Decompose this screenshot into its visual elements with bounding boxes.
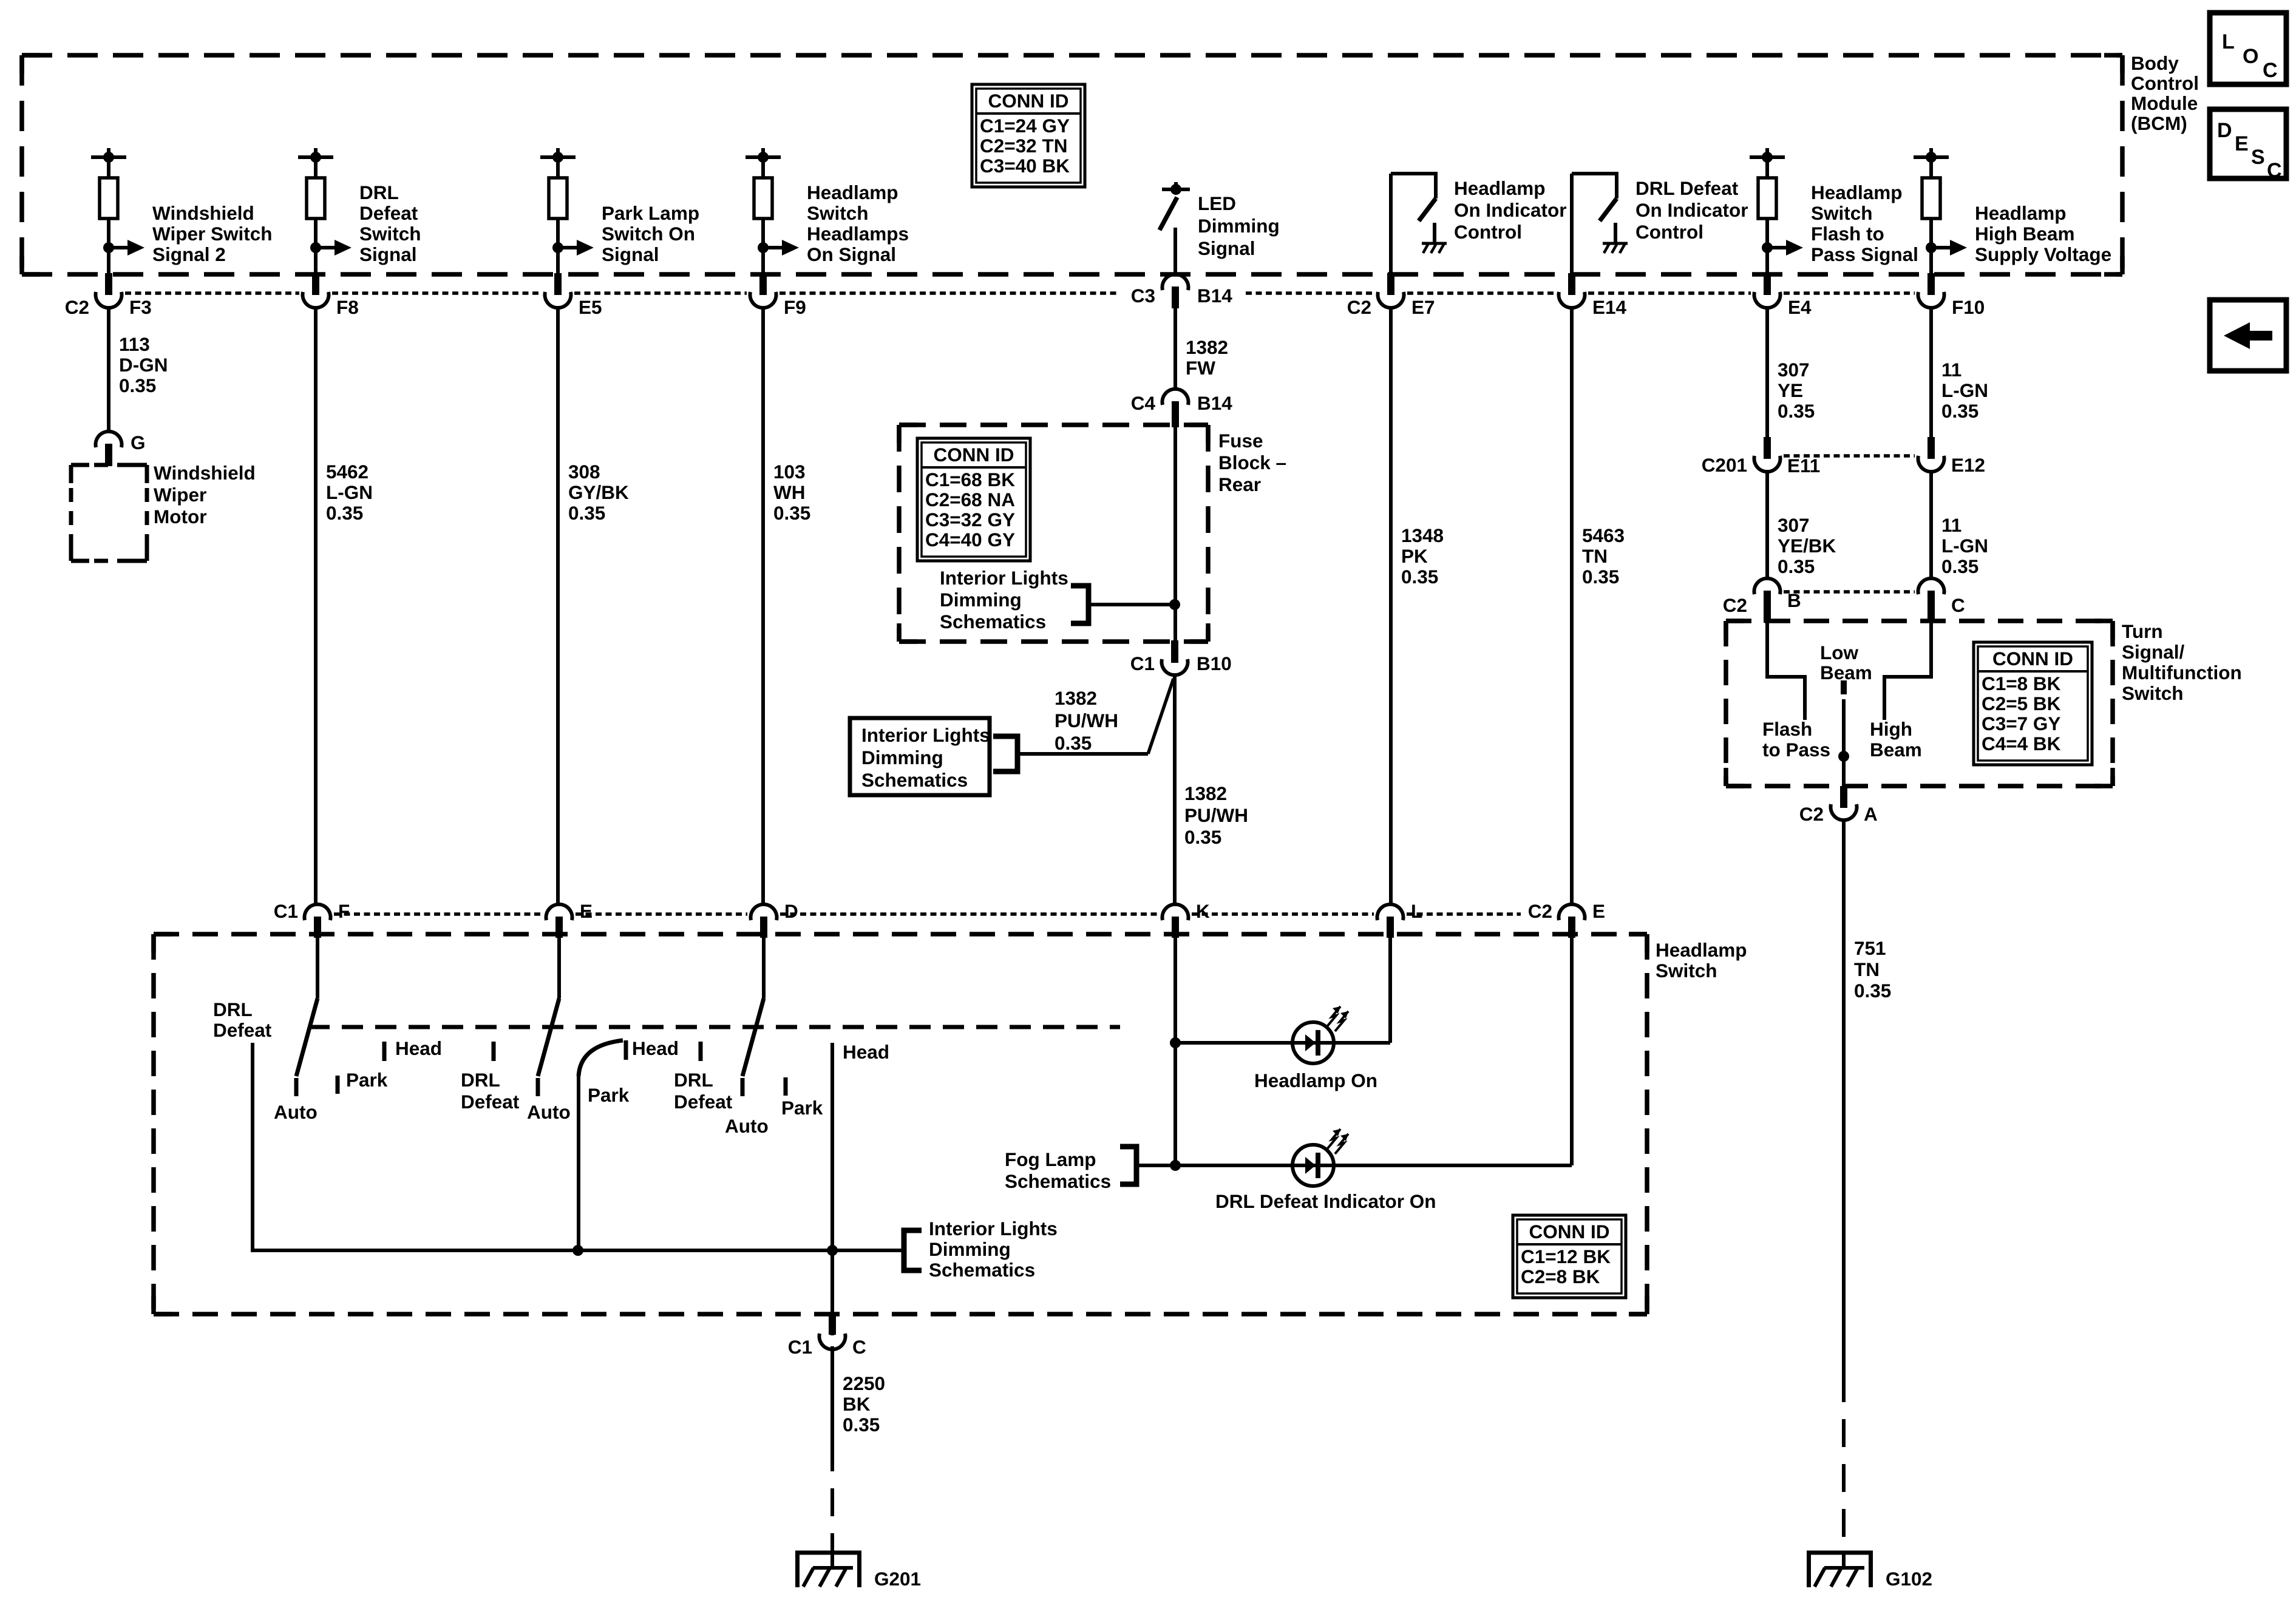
wire 5462 L-GN 0.35 [314, 307, 318, 905]
svg-text:308: 308 [568, 461, 600, 483]
svg-text:O: O [2243, 45, 2258, 68]
svg-text:Dimming: Dimming [1198, 215, 1280, 237]
svg-text:Signal: Signal [359, 243, 417, 265]
svg-text:Head: Head [843, 1041, 889, 1063]
svg-text:C1=68 BK: C1=68 BK [925, 469, 1015, 490]
contact Park (wafer 3) [784, 1077, 788, 1096]
svg-text:307: 307 [1778, 359, 1810, 381]
svg-text:Headlamp: Headlamp [1975, 202, 2067, 224]
connector pin E7 (BCM row) [1387, 273, 1394, 295]
wire 308 GY/BK 0.35 [556, 307, 560, 905]
signal arrow R-E4 [1762, 242, 1773, 253]
dimming bus wire [251, 1249, 904, 1252]
bracket from interior lights box [993, 736, 1017, 771]
contact Auto (wafer 1) [294, 1078, 299, 1096]
svg-text:G201: G201 [874, 1568, 921, 1590]
power feed bar node (R-F9) [761, 148, 765, 157]
svg-text:PK: PK [1401, 545, 1428, 567]
svg-text:Headlamp: Headlamp [1811, 181, 1903, 203]
power feed bar node (R-E4) [1765, 148, 1769, 157]
Headlamp Switch dashed box [154, 932, 1647, 937]
resistor R-F10 pull-up [1929, 157, 1933, 178]
Body Control Module (BCM) dashed box [22, 53, 2122, 58]
svg-text:C4=4 BK: C4=4 BK [1982, 733, 2061, 754]
bracket fog lamp schematics [1120, 1147, 1136, 1184]
svg-text:Switch On: Switch On [602, 223, 695, 245]
svg-text:YE/BK: YE/BK [1778, 535, 1836, 557]
svg-text:0.35: 0.35 [1778, 400, 1815, 422]
svg-text:Windshield: Windshield [154, 462, 256, 484]
wire 751 TN 0.35 [1842, 819, 1846, 1374]
svg-text:C2=5 BK: C2=5 BK [1982, 693, 2061, 714]
svg-text:L: L [1411, 900, 1422, 922]
connector C2 B/C dotted line [1784, 590, 1915, 594]
svg-text:Module: Module [2131, 92, 2198, 114]
svg-text:11: 11 [1941, 359, 1961, 381]
connector pin C201 E12 [1927, 437, 1935, 459]
LED indicator Headlamp On [1292, 1022, 1334, 1063]
svg-text:A: A [1864, 803, 1878, 825]
wire 11 L-GN 0.35 (upper) [1929, 307, 1933, 441]
wire flash-to-pass contact [1767, 623, 1805, 720]
svg-text:On Signal: On Signal [807, 243, 896, 265]
svg-text:Schematics: Schematics [861, 769, 968, 791]
svg-text:5462: 5462 [326, 461, 369, 483]
CONN ID table (fuse block) [917, 438, 1030, 561]
power feed bar node (R-F8) [314, 148, 318, 157]
connector pin F10 (BCM row) [1927, 273, 1935, 295]
headlamp switch wafer 3 (from D) [762, 938, 766, 998]
svg-text:C3: C3 [1131, 285, 1155, 307]
svg-text:B14: B14 [1197, 285, 1232, 307]
svg-text:Dimming: Dimming [861, 747, 943, 768]
back arrow box [2210, 300, 2286, 371]
svg-text:0.35: 0.35 [1055, 732, 1092, 754]
svg-text:C1: C1 [274, 900, 298, 922]
bracket to interior lights dimming (fuse block) [1071, 586, 1089, 623]
wire R-F10 resistor to pin [1929, 219, 1933, 274]
connector pin E14 (BCM row) [1568, 273, 1575, 295]
wire 113 D-GN 0.35 [107, 307, 110, 432]
svg-text:Block –: Block – [1218, 452, 1286, 473]
svg-text:D: D [2217, 119, 2232, 142]
svg-text:Headlamp On: Headlamp On [1254, 1070, 1377, 1091]
svg-text:Motor: Motor [154, 506, 206, 527]
connector pin C2 A (turn signal bottom) [1840, 786, 1847, 808]
mechanical linkage dashed line [308, 1025, 1120, 1029]
svg-text:0.35: 0.35 [119, 375, 156, 396]
bracket to interior lights dimming (headlamp switch) [904, 1230, 922, 1270]
wire 103 WH 0.35 [761, 307, 765, 905]
svg-text:B10: B10 [1197, 653, 1232, 674]
wire K to indicators [1173, 938, 1177, 1165]
svg-text:L: L [2222, 30, 2235, 53]
svg-text:Control: Control [1454, 221, 1522, 243]
svg-text:1348: 1348 [1401, 524, 1444, 546]
svg-text:Beam: Beam [1870, 739, 1922, 761]
park pole curved lever (wafer 2) [579, 1040, 623, 1076]
signal arrow R-E5 [552, 242, 563, 253]
wire Headlamp On LED to L [1334, 1041, 1390, 1045]
wire high-beam contact [1884, 623, 1931, 720]
connector pin E (headlamp switch row) [1558, 904, 1584, 920]
LED indicator DRL Defeat Indicator On [1292, 1145, 1334, 1186]
svg-text:DRL: DRL [213, 998, 253, 1020]
Fuse Block - Rear dashed box [899, 422, 1208, 427]
svg-text:E7: E7 [1411, 296, 1435, 318]
svg-text:L-GN: L-GN [1941, 535, 1988, 557]
svg-text:C4=40 GY: C4=40 GY [925, 529, 1015, 551]
BCM connector dotted line [125, 291, 299, 295]
svg-text:C2: C2 [65, 296, 89, 318]
ground G201 [830, 1553, 834, 1568]
svg-text:Auto: Auto [725, 1115, 769, 1137]
svg-text:C1=8 BK: C1=8 BK [1982, 673, 2061, 694]
svg-text:Auto: Auto [527, 1101, 571, 1123]
wire R-F8 resistor to pin [314, 219, 318, 274]
svg-text:FW: FW [1186, 357, 1215, 379]
svg-text:Defeat: Defeat [461, 1091, 520, 1113]
contact Auto (wafer 2) [536, 1078, 540, 1096]
svg-text:DRL: DRL [674, 1069, 713, 1091]
svg-text:E4: E4 [1788, 296, 1812, 318]
connector pin C2 B (turn signal) [1754, 578, 1781, 594]
svg-text:WH: WH [773, 481, 805, 503]
wire 1382 PU/WH 0.35 (tap) [1017, 752, 1148, 756]
resistor R-F9 pull-up [761, 157, 765, 178]
wire to Headlamp On LED [1175, 1041, 1292, 1045]
power feed bar node (R-E5) [556, 148, 560, 157]
svg-text:DRL: DRL [359, 181, 399, 203]
svg-text:E12: E12 [1951, 454, 1985, 476]
svg-text:Signal: Signal [602, 243, 659, 265]
svg-text:Rear: Rear [1218, 473, 1261, 495]
wire park pole down to bus [577, 1076, 580, 1250]
svg-text:751: 751 [1854, 937, 1886, 959]
BCM bottom dashed edge [22, 272, 2122, 277]
svg-text:Control: Control [2131, 72, 2199, 94]
svg-text:CONN ID: CONN ID [1992, 648, 2073, 670]
wire DRL defeat pole [251, 1043, 254, 1250]
svg-text:Park: Park [346, 1069, 388, 1091]
svg-text:Headlamp: Headlamp [1656, 939, 1747, 961]
connector pin C201 E11 [1764, 437, 1771, 459]
svg-text:Defeat: Defeat [674, 1091, 733, 1113]
svg-text:C3=32 GY: C3=32 GY [925, 509, 1015, 531]
indicator driver switch DRL Defeat On Indicator Control [1570, 174, 1574, 274]
head pole wire [830, 1043, 834, 1335]
svg-text:Park: Park [588, 1084, 630, 1106]
svg-text:F10: F10 [1952, 296, 1985, 318]
svg-text:Dimming: Dimming [940, 589, 1022, 611]
svg-text:C2: C2 [1347, 296, 1371, 318]
svg-text:Flash: Flash [1762, 718, 1812, 740]
wire 11 L-GN 0.35 (lower) [1929, 473, 1933, 580]
svg-text:11: 11 [1941, 514, 1961, 536]
connector pin F (headlamp switch row) [305, 904, 331, 920]
svg-text:E5: E5 [579, 296, 602, 318]
svg-text:Flash to: Flash to [1811, 223, 1884, 245]
wire to DRL Defeat Indicator LED [1175, 1164, 1292, 1167]
svg-text:Head: Head [632, 1037, 679, 1059]
power feed bar node (R-F3) [107, 148, 110, 157]
low beam switch pole [1841, 680, 1847, 694]
svg-text:1382: 1382 [1186, 336, 1228, 358]
Windshield Wiper Motor dashed box [71, 463, 147, 467]
svg-text:Wiper: Wiper [154, 484, 206, 506]
svg-text:C4: C4 [1131, 392, 1156, 414]
wire 751 TN dashed segment to ground [1842, 1374, 1846, 1551]
svg-text:Fog Lamp: Fog Lamp [1005, 1148, 1096, 1170]
svg-text:Auto: Auto [274, 1101, 318, 1123]
svg-text:B14: B14 [1197, 392, 1232, 414]
DESC reference box [2210, 109, 2286, 178]
svg-text:Windshield: Windshield [152, 202, 254, 224]
svg-text:0.35: 0.35 [1778, 555, 1815, 577]
connector pin E5 (BCM row) [554, 273, 562, 295]
LED dimming signal driver symbol [1174, 182, 1178, 189]
svg-text:Switch: Switch [359, 223, 421, 245]
svg-text:On Indicator: On Indicator [1635, 199, 1748, 221]
connector pin C (turn signal) [1918, 578, 1944, 594]
svg-text:Fuse: Fuse [1218, 430, 1263, 452]
wire R-F9 resistor to pin [761, 219, 765, 274]
svg-text:F: F [338, 900, 350, 922]
svg-text:Headlamp: Headlamp [807, 181, 898, 203]
svg-text:Switch: Switch [1811, 202, 1873, 224]
resistor R-E4 pull-up [1765, 157, 1769, 178]
svg-text:E14: E14 [1592, 296, 1627, 318]
svg-text:Schematics: Schematics [1005, 1170, 1111, 1192]
svg-text:DRL Defeat Indicator On: DRL Defeat Indicator On [1215, 1190, 1436, 1212]
Interior Lights Dimming Schematics box [850, 718, 990, 795]
svg-text:Control: Control [1635, 221, 1703, 243]
power feed bar node (R-F10) [1929, 148, 1933, 157]
svg-text:On Indicator: On Indicator [1454, 199, 1567, 221]
headlamp switch wafer 2 (from E) [557, 938, 561, 998]
svg-text:CONN ID: CONN ID [934, 444, 1014, 466]
wire 307 YE 0.35 [1765, 307, 1769, 441]
svg-text:LED: LED [1198, 192, 1236, 214]
svg-text:5463: 5463 [1582, 524, 1625, 546]
wire R-E4 resistor to pin [1765, 219, 1769, 274]
svg-text:D: D [784, 900, 798, 922]
svg-text:C1=12 BK: C1=12 BK [1521, 1246, 1611, 1267]
svg-text:0.35: 0.35 [568, 502, 605, 524]
svg-text:C2: C2 [1723, 594, 1747, 616]
svg-text:F3: F3 [129, 296, 152, 318]
svg-text:CONN ID: CONN ID [1529, 1221, 1610, 1242]
wire 2250 BK dashed segment to ground [830, 1443, 834, 1551]
connector pin G (wiper motor) [96, 432, 122, 447]
svg-text:High Beam: High Beam [1975, 223, 2075, 245]
connector pin L (headlamp switch row) [1377, 904, 1404, 920]
svg-text:L-GN: L-GN [326, 481, 373, 503]
svg-text:(BCM): (BCM) [2131, 112, 2187, 134]
wire 1382 PU/WH 0.35 (to headlamp switch) [1173, 675, 1177, 905]
connector pin D (headlamp switch row) [751, 904, 777, 920]
resistor R-F3 pull-up [107, 157, 110, 178]
connector pin F8 (BCM row) [312, 273, 319, 295]
svg-text:Park: Park [781, 1097, 823, 1119]
wire E drop [1570, 938, 1574, 1165]
svg-text:Interior Lights: Interior Lights [861, 724, 990, 746]
connector pin C4 B14 (fuse block) [1163, 389, 1189, 405]
wire 1348 PK 0.35 [1389, 307, 1393, 905]
svg-text:C2: C2 [1528, 900, 1552, 922]
svg-text:103: 103 [773, 461, 806, 483]
svg-text:YE: YE [1778, 379, 1803, 401]
signal arrow R-F3 [103, 242, 114, 253]
connector pin F9 (BCM row) [759, 273, 767, 295]
svg-text:C: C [2267, 159, 2282, 182]
svg-text:to Pass: to Pass [1762, 739, 1830, 761]
wire B14 inside fuse block [1173, 427, 1177, 642]
svg-text:0.35: 0.35 [1854, 980, 1891, 1002]
wire LED dimming signal [1173, 228, 1177, 274]
svg-text:Turn: Turn [2122, 620, 2163, 642]
ground G102 [1842, 1553, 1846, 1568]
resistor R-F8 pull-up [314, 157, 318, 178]
svg-text:C3=40 BK: C3=40 BK [980, 155, 1070, 177]
contact DRL Defeat (wafer 2) [492, 1042, 496, 1061]
svg-text:Switch: Switch [807, 202, 869, 224]
headlamp switch connector dotted line [334, 912, 543, 916]
connector C201 dotted line [1784, 454, 1915, 458]
svg-text:Defeat: Defeat [359, 202, 418, 224]
CONN ID table (turn signal switch) [1974, 642, 2092, 765]
contact Park (wafer 1) [336, 1076, 340, 1094]
indicator driver switch Headlamp On Indicator Control [1389, 174, 1393, 274]
wire 2250 BK 0.35 [830, 1346, 834, 1443]
signal arrow R-F9 [758, 242, 769, 253]
svg-text:Dimming: Dimming [929, 1238, 1011, 1260]
svg-text:307: 307 [1778, 514, 1810, 536]
svg-text:G102: G102 [1886, 1568, 1932, 1590]
svg-text:Switch: Switch [2122, 682, 2184, 704]
svg-text:C2=68 NA: C2=68 NA [925, 489, 1015, 510]
svg-text:Headlamps: Headlamps [807, 223, 909, 245]
svg-text:Head: Head [395, 1037, 442, 1059]
ground symbol (DRL Defeat On Indicator Control internal) [1614, 223, 1617, 243]
wire R-E5 resistor to pin [556, 219, 560, 274]
svg-text:2250: 2250 [843, 1372, 885, 1394]
svg-text:0.35: 0.35 [1582, 566, 1619, 588]
svg-text:E: E [1592, 900, 1605, 922]
svg-text:Low: Low [1820, 642, 1858, 663]
headlamp switch wafer 1 (from F) [316, 938, 319, 998]
svg-text:C2: C2 [1799, 803, 1824, 825]
svg-text:TN: TN [1582, 545, 1608, 567]
svg-text:Headlamp: Headlamp [1454, 177, 1546, 199]
connector pin C1 B10 (fuse block bottom) [1171, 640, 1178, 663]
svg-text:Multifunction: Multifunction [2122, 662, 2242, 683]
svg-text:Wiper Switch: Wiper Switch [152, 223, 273, 245]
wire 5463 TN 0.35 [1570, 307, 1574, 905]
CONN ID table (headlamp switch) [1513, 1215, 1626, 1298]
svg-text:Defeat: Defeat [213, 1019, 272, 1041]
wire 307 YE/BK 0.35 [1765, 473, 1769, 580]
svg-text:CONN ID: CONN ID [988, 90, 1069, 112]
svg-text:Interior Lights: Interior Lights [929, 1218, 1058, 1239]
svg-text:C: C [1951, 594, 1965, 616]
wire DRL LED to E [1334, 1164, 1572, 1167]
contact Head (wafer 2) [624, 1040, 628, 1060]
svg-text:0.35: 0.35 [773, 502, 810, 524]
connector pin K (headlamp switch row) [1162, 904, 1188, 920]
svg-text:0.35: 0.35 [1941, 400, 1978, 422]
svg-text:C1=24 GY: C1=24 GY [980, 115, 1070, 137]
svg-text:Supply Voltage: Supply Voltage [1975, 243, 2111, 265]
wire interior lights dimming tap [1089, 603, 1175, 606]
svg-text:Switch: Switch [1656, 960, 1717, 981]
svg-text:C3=7 GY: C3=7 GY [1982, 713, 2060, 734]
contact DRL Defeat (wafer 3) [699, 1042, 703, 1061]
svg-text:DRL Defeat: DRL Defeat [1635, 177, 1739, 199]
connector pin F3 (BCM row) [105, 273, 112, 295]
connector pin E (headlamp switch row) [546, 904, 572, 920]
svg-text:PU/WH: PU/WH [1184, 804, 1248, 826]
svg-text:C1: C1 [788, 1336, 812, 1358]
svg-text:Beam: Beam [1820, 662, 1872, 683]
signal arrow R-F8 [310, 242, 321, 253]
svg-text:Signal 2: Signal 2 [152, 243, 226, 265]
Turn Signal/Multifunction Switch dashed box [1726, 619, 2113, 623]
svg-text:0.35: 0.35 [843, 1414, 880, 1436]
svg-text:TN: TN [1854, 958, 1880, 980]
svg-text:Pass Signal: Pass Signal [1811, 243, 1918, 265]
contact Head (wafer 1) [382, 1042, 387, 1061]
svg-text:K: K [1196, 900, 1210, 922]
svg-text:D-GN: D-GN [119, 354, 168, 376]
svg-text:1382: 1382 [1055, 687, 1097, 709]
LOC reference box [2210, 13, 2286, 84]
svg-text:E11: E11 [1787, 455, 1820, 476]
svg-text:E: E [580, 900, 593, 922]
connector pin E4 (BCM row) [1764, 273, 1771, 295]
svg-text:B: B [1787, 589, 1801, 611]
svg-text:Schematics: Schematics [929, 1259, 1035, 1281]
svg-text:0.35: 0.35 [1941, 555, 1978, 577]
svg-text:C2=32 TN: C2=32 TN [980, 135, 1067, 157]
wire 1382 FW [1173, 305, 1177, 390]
svg-text:DRL: DRL [461, 1069, 500, 1091]
svg-text:High: High [1870, 718, 1912, 740]
svg-text:F8: F8 [336, 296, 359, 318]
svg-text:BK: BK [843, 1393, 871, 1415]
wire fog lamp tap [1136, 1164, 1175, 1167]
svg-text:Park Lamp: Park Lamp [602, 202, 699, 224]
wire R-F3 resistor to pin [107, 219, 110, 274]
svg-text:F9: F9 [784, 296, 806, 318]
svg-text:E: E [2235, 132, 2249, 155]
svg-text:Signal/: Signal/ [2122, 641, 2185, 663]
connector pin C1 C (headlamp switch bottom) [829, 1313, 836, 1335]
svg-text:1382: 1382 [1184, 782, 1227, 804]
svg-text:C2=8 BK: C2=8 BK [1521, 1266, 1600, 1287]
svg-text:Signal: Signal [1198, 237, 1255, 259]
svg-text:C201: C201 [1702, 454, 1747, 476]
svg-text:S: S [2251, 146, 2265, 169]
svg-text:L-GN: L-GN [1941, 379, 1988, 401]
svg-text:G: G [131, 432, 146, 453]
wire L drop [1388, 938, 1392, 1043]
svg-text:0.35: 0.35 [1184, 826, 1221, 848]
resistor R-E5 pull-up [556, 157, 560, 178]
svg-text:C: C [2263, 59, 2278, 82]
svg-text:113: 113 [119, 333, 150, 355]
svg-text:C1: C1 [1130, 653, 1155, 674]
